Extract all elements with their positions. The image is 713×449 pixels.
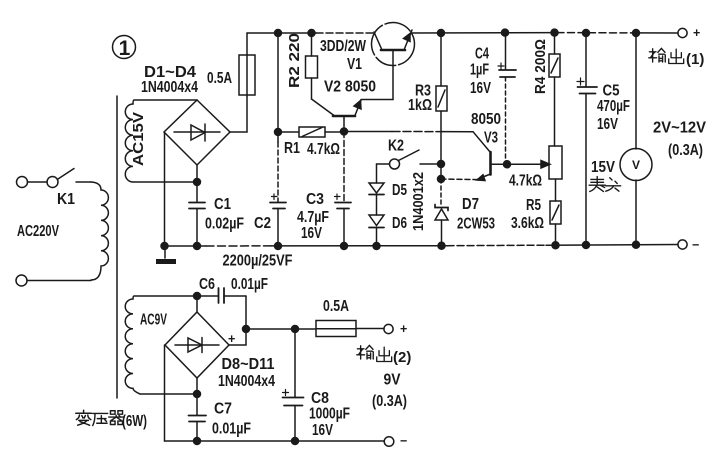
svg-text:D8~D11: D8~D11 (222, 356, 275, 373)
svg-text:1: 1 (119, 37, 131, 60)
node rail / C4 (502, 29, 509, 36)
capacitor C4 1uF (470, 33, 516, 164)
svg-text:3DD/2W: 3DD/2W (320, 38, 366, 55)
svg-text:2V~12V: 2V~12V (653, 120, 707, 137)
capacitor C2 (254, 194, 286, 232)
svg-text:V3: V3 (484, 130, 498, 147)
svg-text:C1: C1 (214, 196, 231, 213)
output (2) positive terminal (357, 322, 412, 366)
svg-text:K1: K1 (57, 191, 75, 208)
wire bridge2 + to output node (229, 329, 246, 345)
svg-text:D5: D5 (392, 182, 407, 199)
resistor R5 3.6k (511, 197, 561, 246)
output rating label (653, 120, 707, 160)
transistor V3 8050 (441, 111, 507, 181)
svg-text:AC15V: AC15V (131, 112, 147, 166)
svg-text:1N4004x4: 1N4004x4 (141, 79, 198, 96)
svg-text:(0.3A): (0.3A) (668, 142, 703, 159)
output (2) negative terminal (384, 434, 407, 448)
capacitor C8 1000uF (283, 329, 351, 441)
node gnd/C5 (583, 242, 590, 249)
node rail / meter (633, 30, 640, 37)
svg-text:1N4001x2: 1N4001x2 (411, 172, 427, 231)
node rail2/C7 (194, 438, 201, 445)
svg-text:1N4004x4: 1N4004x4 (218, 373, 275, 390)
output (1) positive terminal (649, 26, 705, 68)
transformer core (116, 96, 118, 398)
wire V2 base node to V3 collector (344, 132, 491, 153)
ground symbol (156, 246, 176, 262)
node C8 top (292, 326, 299, 333)
transformer T primary winding (91, 182, 108, 280)
node raw rail / C2 branch (275, 30, 282, 37)
fuse 0.5A (upper) (207, 33, 255, 96)
svg-text:(6W): (6W) (122, 413, 147, 430)
svg-text:R1: R1 (284, 140, 300, 157)
fuse 0.5A (lower) (316, 298, 384, 337)
wire bridge2 AC bottom (196, 378, 198, 394)
wire R3 to zener node (440, 111, 442, 179)
svg-text:D7: D7 (462, 196, 479, 213)
transistor V2 8050 (312, 79, 394, 132)
svg-text:16V: 16V (301, 225, 322, 242)
svg-text:16V: 16V (597, 116, 618, 133)
svg-text:+: + (228, 332, 235, 346)
node rail / C5 (583, 30, 590, 37)
transformer secondary winding AC15V (125, 100, 197, 182)
capacitor C6 0.01uF (197, 276, 268, 303)
wire wiper arrow to potentiometer (507, 161, 550, 169)
resistor R3 1k (408, 33, 447, 114)
wire bridge1 + output to fuse (230, 96, 247, 132)
node gnd/C3 (341, 243, 348, 250)
svg-text:15V: 15V (591, 159, 616, 176)
node gnd/C2 (275, 243, 282, 250)
svg-text:(0.3A): (0.3A) (372, 393, 407, 410)
node rail / R4 (551, 29, 558, 36)
AC220V lower input terminal (16, 275, 91, 286)
node bridge2 bottom / winding / C7 (194, 391, 201, 398)
svg-text:0.5A: 0.5A (323, 298, 349, 315)
node raw rail / R2 branch (308, 30, 315, 37)
svg-text:V2 8050: V2 8050 (324, 79, 376, 96)
diode D6 (369, 215, 407, 232)
svg-text:−: − (400, 434, 407, 448)
node R1 left (275, 129, 282, 136)
node DC+ / C6 (243, 326, 250, 333)
svg-text:C6: C6 (199, 276, 215, 293)
node gnd/D6 (373, 243, 380, 250)
bridge rectifier D8~D11 (165, 312, 275, 390)
node rail / R3 (438, 30, 445, 37)
svg-text:V1: V1 (347, 56, 362, 73)
svg-text:1000µF: 1000µF (309, 406, 350, 423)
switch K2 (377, 138, 442, 170)
transformer label (76, 410, 124, 425)
svg-text:2200µ/25VF: 2200µ/25VF (223, 253, 293, 270)
wire C3 to ground rail (343, 209, 345, 247)
wire R1 node to C2 (277, 142, 279, 202)
wire AC9V top node down to bridge2 (196, 296, 198, 312)
wire D6 to ground rail (376, 228, 378, 247)
svg-text:1kΩ: 1kΩ (408, 97, 432, 114)
svg-text:C4: C4 (475, 46, 489, 63)
node gnd/meter (633, 241, 640, 248)
wire raw vertical x=278 (rail to R1 node) (277, 33, 279, 142)
node gnd/C1 (194, 243, 201, 250)
transistor V1 3DD/2W (320, 23, 415, 100)
transformer secondary winding AC9V (125, 296, 197, 394)
top supply rail (regulated side) (412, 32, 678, 34)
svg-text:(1): (1) (686, 51, 704, 68)
zener diode D7 2CW53 (435, 196, 495, 246)
node gnd/R5 (552, 242, 559, 249)
node gnd/D7 (438, 242, 445, 249)
wire bridge1 bottom corner to C1 (196, 165, 198, 202)
voltmeter 15V (589, 33, 652, 246)
node rail2/C8 (292, 438, 299, 445)
svg-text:0.01µF: 0.01µF (212, 421, 251, 438)
svg-text:+: + (400, 322, 407, 336)
svg-text:D6: D6 (392, 215, 407, 232)
capacitor C1 0.02uF (189, 196, 244, 246)
svg-text:C7: C7 (214, 401, 232, 418)
svg-text:16V: 16V (470, 80, 491, 97)
svg-text:9V: 9V (384, 372, 402, 389)
wire D5 to D6 (376, 195, 378, 216)
resistor R4 200 (533, 33, 560, 146)
svg-text:C8: C8 (311, 390, 329, 407)
ground rail (upper section) (165, 245, 679, 247)
svg-text:R2 220: R2 220 (287, 33, 303, 88)
svg-text:4.7µF: 4.7µF (297, 209, 329, 226)
svg-text:+: + (693, 26, 700, 40)
svg-text:R5: R5 (526, 197, 541, 214)
svg-text:C2: C2 (254, 215, 271, 232)
svg-text:470µF: 470µF (597, 98, 630, 115)
svg-text:2CW53: 2CW53 (457, 216, 495, 233)
svg-text:AC9V: AC9V (140, 312, 167, 329)
svg-text:3.6kΩ: 3.6kΩ (511, 215, 544, 232)
svg-text:R4 200Ω: R4 200Ω (533, 39, 549, 94)
node AC9V top / C6 (194, 293, 201, 300)
node winding/bridge1 AC bottom (194, 179, 201, 186)
resistor R1 4.7k (281, 127, 341, 158)
svg-text:16V: 16V (312, 422, 333, 439)
svg-text:(2): (2) (393, 349, 411, 366)
svg-text:AC220V: AC220V (17, 223, 59, 240)
wire bridge2 - down to lower rail (164, 345, 166, 441)
capacitor C3 4.7uF (297, 191, 351, 242)
svg-text:0.02µF: 0.02µF (205, 216, 244, 233)
node V3 base / C4 / wiper (504, 161, 511, 168)
node gnd/bridge1- (161, 243, 168, 250)
svg-text:0.01µF: 0.01µF (231, 276, 268, 293)
svg-text:4.7kΩ: 4.7kΩ (307, 141, 340, 158)
resistor R2 220 (287, 33, 318, 99)
svg-text:1µF: 1µF (470, 62, 489, 79)
wire DC+ node to fuse (246, 328, 316, 330)
output 2 rating (372, 372, 407, 411)
svg-text:4.7kΩ: 4.7kΩ (509, 173, 542, 190)
output (1) negative terminal (678, 238, 699, 252)
diode D5 (369, 164, 407, 199)
wire bridge1 - output down (164, 132, 166, 246)
wire C2 to ground rail (277, 209, 279, 247)
svg-text:8050: 8050 (471, 111, 501, 128)
svg-text:0.5A: 0.5A (207, 70, 232, 87)
svg-text:V: V (632, 158, 640, 172)
svg-text:K2: K2 (388, 138, 404, 155)
node K2 wire (438, 161, 445, 168)
svg-text:C5: C5 (603, 83, 620, 100)
capacitor C7 0.01uF (189, 394, 252, 441)
wire C6 right down to DC+ node (245, 296, 247, 329)
top supply rail (raw side) (247, 32, 316, 34)
capacitor C5 470uF (577, 33, 630, 246)
bridge rectifier D1~D4 (141, 64, 230, 165)
node V2 base / R1 / C3 (341, 128, 348, 135)
wire pot to R5 (555, 179, 557, 201)
switch K1 (17, 169, 92, 209)
svg-text:−: − (692, 238, 699, 252)
wire C3 top (343, 132, 345, 203)
circled figure number 1 (113, 36, 136, 61)
lower ground rail (165, 440, 385, 442)
potentiometer 4.7k (509, 146, 562, 190)
node V3 emitter wire (438, 176, 445, 183)
svg-text:C3: C3 (306, 191, 324, 208)
